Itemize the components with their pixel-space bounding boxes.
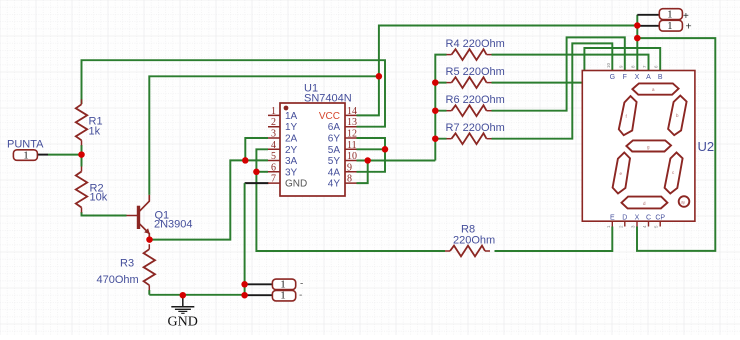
- connector bottom box 1 (-): [272, 279, 295, 290]
- wire pin10 branch down to pin8 (4Y): [357, 161, 368, 184]
- svg-text:D: D: [622, 215, 627, 222]
- svg-text:1: 1: [280, 278, 286, 290]
- junction R7 tap: [432, 135, 439, 142]
- wire GND bottom rail from R3: [149, 290, 244, 295]
- transistor Q1 2N3904: [127, 195, 150, 240]
- svg-text:A: A: [646, 74, 651, 81]
- U1 left pin stubs: [268, 115, 280, 183]
- svg-text:CP: CP: [655, 215, 665, 222]
- svg-text:10k: 10k: [90, 192, 108, 204]
- wire R4 to display pin A: [492, 55, 649, 71]
- resistor R5 220Ohm: [447, 82, 452, 84]
- svg-text:R4 220Ohm: R4 220Ohm: [446, 38, 505, 50]
- svg-text:9: 9: [347, 162, 352, 173]
- junction GND to connector 1: [241, 281, 248, 288]
- junction 2Y/3Y net: [253, 169, 260, 176]
- U2 segment a: [632, 83, 678, 94]
- junction 2A/3A net: [242, 157, 249, 164]
- resistor R7 220Ohm: [447, 138, 452, 140]
- wire Q1 emitter to R3 and right toward U1 inputs: [149, 160, 268, 239]
- svg-text:5A: 5A: [328, 145, 341, 156]
- resistor R2: [81, 167, 83, 172]
- U2 segment f: [619, 96, 637, 135]
- svg-text:6A: 6A: [328, 122, 341, 133]
- svg-text:R5 220Ohm: R5 220Ohm: [446, 66, 505, 78]
- svg-text:8: 8: [347, 174, 352, 185]
- U2 segment d: [622, 197, 668, 209]
- wire R1 top to U1 pin 13 (net to 6A): [82, 60, 386, 127]
- resistor R8 220Ohm: [445, 250, 450, 252]
- svg-text:1: 1: [23, 149, 29, 161]
- svg-text:R6 220Ohm: R6 220Ohm: [446, 94, 505, 106]
- wire U1 pin7 GND (dark lead): [245, 182, 269, 184]
- wire U1 pin11 (5A) to junction: [357, 148, 386, 150]
- svg-text:14: 14: [347, 106, 357, 117]
- svg-text:R7 220Ohm: R7 220Ohm: [446, 122, 505, 134]
- svg-text:2: 2: [271, 117, 276, 128]
- svg-text:2Y: 2Y: [285, 145, 298, 156]
- junction VCC display wrap: [634, 35, 641, 42]
- svg-text:B: B: [658, 74, 663, 81]
- svg-text:-: -: [299, 290, 302, 301]
- svg-text:C: C: [646, 215, 651, 222]
- svg-text:1: 1: [667, 20, 673, 32]
- op-amp / IC U1 SN7404N: [280, 103, 345, 196]
- wire U1 pin6 (3Y) to junction: [256, 171, 268, 173]
- wire R6 to display pin F: [492, 37, 625, 110]
- svg-text:dp: dp: [681, 199, 686, 204]
- svg-text:GND: GND: [168, 315, 198, 330]
- svg-text:3Y: 3Y: [285, 167, 298, 178]
- svg-text:13: 13: [347, 117, 357, 128]
- junction Q1 emitter/R3: [146, 236, 153, 243]
- svg-text:-: -: [300, 279, 303, 290]
- svg-text:4: 4: [271, 140, 276, 151]
- wire lead to bottom connector 2 (black): [245, 294, 273, 296]
- wire VCC wrap around display right side to bottom pin X: [637, 38, 715, 251]
- svg-text:5: 5: [271, 151, 276, 162]
- svg-text:U2: U2: [698, 139, 715, 154]
- svg-text:SN7404N: SN7404N: [304, 93, 352, 105]
- wire R1 bottom / R2 top at junction: [81, 145, 83, 167]
- U2 decimal point dp: [679, 196, 690, 207]
- junction 6Y/5A net: [382, 146, 389, 153]
- svg-text:2N3904: 2N3904: [154, 219, 193, 231]
- svg-text:1Y: 1Y: [285, 122, 298, 133]
- svg-text:1: 1: [280, 290, 286, 302]
- connector top box 2 (+): [659, 20, 682, 31]
- resistor R1: [81, 99, 83, 104]
- svg-text:R3: R3: [120, 258, 134, 270]
- svg-text:1A: 1A: [285, 111, 298, 122]
- wire resistor common column R4-R7: [435, 55, 446, 161]
- svg-text:1: 1: [271, 106, 276, 117]
- connector bottom box 2 (-): [272, 290, 295, 301]
- svg-text:11: 11: [347, 140, 357, 151]
- svg-text:3A: 3A: [285, 156, 298, 167]
- svg-text:4A: 4A: [328, 167, 341, 178]
- svg-text:VCC: VCC: [319, 111, 340, 122]
- svg-text:7: 7: [271, 174, 276, 185]
- svg-text:5Y: 5Y: [328, 156, 341, 167]
- svg-text:3: 3: [271, 129, 276, 140]
- svg-text:10: 10: [347, 151, 357, 162]
- junction 5Y/4Y net: [364, 157, 371, 164]
- wire GND vertical to bottom rail: [244, 183, 246, 295]
- junction GND symbol tap: [180, 292, 187, 299]
- U2 segment c: [665, 153, 683, 194]
- U1 right pin stubs: [345, 115, 357, 183]
- wire R2 bottom to Q1 base: [82, 212, 127, 216]
- wire lead to bottom connector 1 (black): [245, 283, 273, 285]
- svg-text:1: 1: [667, 8, 673, 20]
- wire VCC down to display top pin X: [636, 26, 638, 71]
- wire PUNTA to R1/R2 junction: [38, 154, 49, 156]
- U2 bottom pin stubs: [612, 221, 660, 226]
- svg-text:G: G: [610, 74, 615, 81]
- U2 segment g: [626, 140, 671, 151]
- svg-text:X: X: [635, 74, 640, 81]
- wire U1 pin3 (2A) tie down to 3A net: [245, 138, 268, 160]
- svg-text:2A: 2A: [285, 134, 298, 145]
- wire R7 to display pin G: [492, 43, 613, 138]
- svg-text:6: 6: [271, 162, 276, 173]
- connector top box 1 (+): [659, 9, 682, 20]
- junction R6 tap: [432, 107, 439, 114]
- wire U1 pin4 (2Y) down to 3Y and to R8: [256, 149, 445, 251]
- svg-text:10: 10: [606, 62, 611, 68]
- resistor R3: [148, 244, 150, 249]
- junction VCC/collector: [376, 73, 383, 80]
- svg-text:4Y: 4Y: [328, 179, 341, 190]
- U2 segment e: [613, 153, 630, 194]
- junction R5 tap: [432, 79, 439, 86]
- svg-text:X: X: [635, 215, 640, 222]
- 7-segment display U2: [582, 71, 695, 222]
- svg-text:F: F: [623, 74, 627, 81]
- wire Q1 collector to VCC rail: [149, 76, 379, 195]
- svg-text:E: E: [610, 215, 615, 222]
- resistor R6 220Ohm: [447, 110, 452, 112]
- junction PUNTA/R1/R2: [78, 151, 85, 158]
- wire R5 to display pin B: [492, 48, 661, 83]
- svg-text:220Ohm: 220Ohm: [453, 235, 495, 247]
- svg-text:GND: GND: [285, 179, 307, 190]
- wire U1 pin10 (5Y) to resistor column: [357, 160, 436, 162]
- wire connector lead top box (black): [637, 14, 659, 16]
- svg-text:1k: 1k: [89, 126, 101, 138]
- wire U1 pin12 (6Y) to pin11/pin9: [357, 138, 386, 172]
- wire R8 to display bottom pin E: [495, 227, 613, 252]
- svg-text:6Y: 6Y: [328, 134, 341, 145]
- U2 segment b: [668, 96, 687, 136]
- junction GND rail corner: [241, 292, 248, 299]
- svg-text:470Ohm: 470Ohm: [97, 274, 139, 286]
- ground symbol GND: [168, 296, 198, 330]
- junction VCC connector: [634, 22, 641, 29]
- wire VCC: U1 pin14 up to top rail and right to connector: [357, 15, 638, 116]
- resistor R4 220Ohm: [447, 54, 452, 56]
- svg-text:+: +: [686, 21, 692, 33]
- wire connector lead second box (black): [637, 25, 659, 27]
- svg-text:12: 12: [347, 129, 357, 140]
